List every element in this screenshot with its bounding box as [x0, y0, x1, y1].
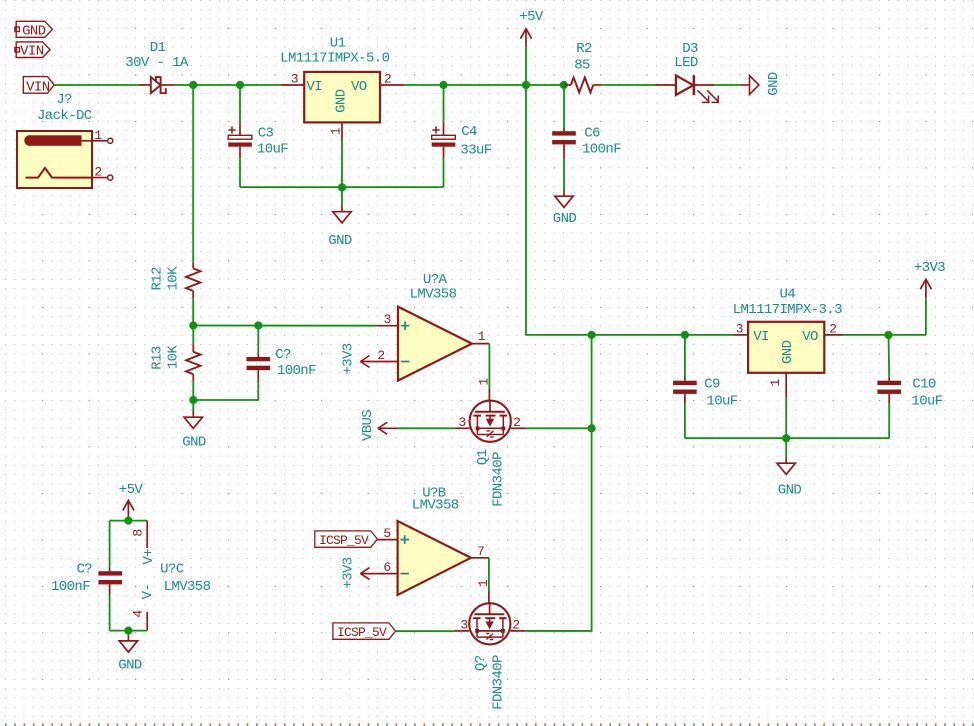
- svg-text:VO: VO: [351, 79, 367, 95]
- op-amp U?A: [398, 307, 472, 381]
- svg-text:100nF: 100nF: [582, 141, 621, 157]
- capacitor C4 wires: [443, 85, 445, 122]
- label VIN: [23, 77, 54, 94]
- wire +5V down: [526, 85, 733, 335]
- svg-text:8: 8: [131, 529, 146, 536]
- hierarchical label GND: [16, 21, 52, 37]
- capacitor C? U?C: [98, 571, 122, 575]
- U1 pin 1 lead: [341, 122, 343, 140]
- svg-text:Q1: Q1: [475, 449, 491, 465]
- svg-text:U?C: U?C: [160, 561, 184, 577]
- D3 light arrows: [698, 90, 710, 103]
- svg-text:6: 6: [383, 560, 390, 575]
- transistor Q?: [469, 603, 510, 644]
- svg-text:100nF: 100nF: [277, 363, 316, 379]
- svg-text:GND: GND: [22, 23, 46, 39]
- power +3V3: [925, 279, 927, 298]
- svg-text:LM1117IMPX-3.3: LM1117IMPX-3.3: [733, 302, 842, 318]
- svg-text:FDN340P: FDN340P: [491, 452, 507, 507]
- svg-text:LMV358: LMV358: [412, 498, 459, 514]
- svg-text:3: 3: [460, 618, 467, 633]
- junction C3 tap: [236, 81, 244, 89]
- junction C10 tap: [884, 331, 892, 339]
- capacitor C10: [877, 381, 901, 385]
- capacitor C9: [673, 381, 697, 385]
- svg-text:30V - 1A: 30V - 1A: [125, 55, 189, 71]
- svg-text:LMV358: LMV358: [164, 579, 211, 595]
- svg-text:10K: 10K: [166, 266, 182, 291]
- ground R13: [192, 400, 194, 412]
- svg-text:1: 1: [477, 377, 492, 385]
- svg-text:C4: C4: [461, 124, 477, 140]
- U?B pin 6 lead: [362, 573, 398, 575]
- diode D3 LED: [656, 84, 676, 86]
- svg-text:LMV358: LMV358: [410, 286, 457, 302]
- capacitor C9 wires: [684, 335, 686, 377]
- svg-text:4: 4: [131, 610, 146, 618]
- transistor Q1: [470, 401, 511, 442]
- svg-text:D1: D1: [150, 40, 166, 56]
- resistor R13: [192, 326, 194, 345]
- capacitor C?: [247, 357, 271, 361]
- svg-text:LM1117IMPX-5.0: LM1117IMPX-5.0: [280, 51, 389, 67]
- resistor R12: [192, 85, 194, 262]
- wire R2 to D3: [602, 84, 656, 86]
- power +5V U?C: [127, 500, 129, 519]
- wire C9-C10 gnd rail: [685, 437, 889, 439]
- U4 pin 3 lead: [733, 334, 748, 336]
- junction Q1 rail: [588, 424, 596, 432]
- junction C? tap: [254, 321, 262, 329]
- svg-text:VI: VI: [753, 329, 769, 345]
- svg-text:2: 2: [377, 348, 384, 363]
- regulator U1: [304, 72, 380, 123]
- svg-text:+5V: +5V: [519, 9, 544, 25]
- U?C pin 4 lead: [146, 612, 148, 631]
- junction mid rail top: [588, 331, 596, 339]
- svg-text:VIN: VIN: [26, 79, 50, 95]
- svg-text:10uF: 10uF: [706, 393, 737, 409]
- svg-text:C6: C6: [584, 125, 600, 141]
- sheet border ticks bottom: [5, 723, 974, 726]
- svg-text:1: 1: [329, 127, 344, 135]
- wire C3-C4 gnd rail: [240, 186, 444, 188]
- svg-text:10K: 10K: [166, 345, 182, 370]
- junction U4 gnd: [782, 434, 790, 442]
- svg-text:2: 2: [94, 165, 101, 180]
- svg-text:R2: R2: [576, 41, 592, 57]
- svg-text:J?: J?: [56, 92, 72, 108]
- svg-text:U4: U4: [779, 287, 795, 303]
- wire D3 to GND label: [715, 84, 740, 86]
- capacitor C3: [228, 135, 252, 139]
- U?C top wire: [110, 520, 148, 522]
- svg-text:C3: C3: [258, 126, 274, 142]
- svg-text:+3V3: +3V3: [341, 343, 357, 374]
- label GND right: [740, 84, 750, 86]
- Q? gate lead: [488, 592, 490, 604]
- svg-text:33uF: 33uF: [460, 142, 491, 158]
- junction R2: [560, 81, 568, 89]
- svg-text:10uF: 10uF: [257, 142, 288, 158]
- svg-text:2: 2: [512, 618, 519, 633]
- wire Q1 to rail: [526, 427, 592, 429]
- junction U1 gnd: [338, 183, 346, 191]
- diode D1: [138, 84, 151, 86]
- svg-text:GND: GND: [118, 658, 142, 674]
- svg-text:C10: C10: [912, 376, 936, 392]
- ground U4: [785, 438, 787, 457]
- junction C9 tap: [681, 331, 689, 339]
- capacitor C4: [432, 135, 456, 139]
- Q1 gate lead: [488, 389, 490, 401]
- svg-text:ICSP_5V: ICSP_5V: [319, 533, 369, 548]
- svg-text:VI: VI: [306, 79, 322, 95]
- svg-text:ICSP_5V: ICSP_5V: [337, 625, 387, 640]
- label +3V3 on U?A pin2: [360, 356, 369, 368]
- label +3V3 on U?B pin6: [360, 568, 369, 580]
- ground U?C: [127, 631, 129, 636]
- capacitor C6 wires: [563, 85, 565, 128]
- svg-text:R12: R12: [150, 267, 166, 291]
- svg-text:Jack-DC: Jack-DC: [37, 108, 92, 124]
- svg-text:1: 1: [768, 378, 783, 386]
- svg-text:GND: GND: [766, 72, 782, 96]
- U1 pin 2 lead: [380, 84, 404, 86]
- junction U?C top: [124, 517, 132, 525]
- svg-text:7: 7: [477, 544, 484, 559]
- U?A pin 1 lead: [472, 343, 490, 345]
- U?A pin 2 lead: [362, 361, 398, 363]
- svg-text:R13: R13: [150, 346, 166, 370]
- svg-text:GND: GND: [778, 483, 802, 499]
- wire VBUS to Q1: [398, 427, 455, 429]
- capacitor C? wires: [257, 326, 259, 354]
- U4 pin 2 lead: [824, 334, 843, 336]
- svg-text:U1: U1: [330, 36, 346, 52]
- capacitor C6: [552, 131, 576, 135]
- wire ICSP to Q?: [396, 630, 455, 632]
- svg-text:3: 3: [458, 415, 465, 430]
- svg-text:C9: C9: [704, 376, 720, 392]
- wire mid rail: [526, 335, 592, 631]
- wire divider to opamp: [193, 325, 377, 327]
- U?B pin 5 lead: [377, 539, 397, 541]
- svg-text:1: 1: [478, 329, 486, 344]
- wire U1 output rail: [404, 84, 564, 86]
- junction +5V: [522, 81, 530, 89]
- svg-text:GND: GND: [182, 434, 206, 450]
- svg-text:3: 3: [384, 312, 391, 327]
- svg-text:GND: GND: [328, 233, 352, 249]
- junction divider: [189, 321, 197, 329]
- junction D1/R12: [189, 81, 197, 89]
- svg-text:VIN: VIN: [20, 44, 44, 60]
- svg-text:+3V3: +3V3: [341, 557, 357, 588]
- U?A pin 3 lead: [378, 325, 399, 327]
- U4 pin 1 lead: [785, 373, 787, 398]
- svg-text:GND: GND: [780, 340, 796, 364]
- svg-text:+5V: +5V: [119, 482, 144, 498]
- U?B pin 7 lead: [471, 557, 489, 559]
- resistor R2: [564, 84, 571, 86]
- wire U?A out down: [488, 344, 490, 389]
- svg-text:C?: C?: [76, 561, 92, 577]
- label ICSP_5V pin5: [315, 531, 378, 547]
- svg-text:2: 2: [513, 415, 520, 430]
- ground U1: [341, 187, 343, 206]
- U?C bottom wire: [110, 630, 148, 632]
- svg-text:GND: GND: [553, 211, 577, 227]
- U1 pin 3 lead: [281, 84, 304, 86]
- op-amp U?B: [398, 521, 471, 595]
- svg-text:5: 5: [383, 526, 390, 541]
- svg-text:GND: GND: [334, 89, 350, 113]
- svg-text:V-: V-: [140, 584, 156, 600]
- svg-text:3: 3: [291, 72, 298, 87]
- svg-text:VBUS: VBUS: [360, 410, 376, 441]
- svg-text:+3V3: +3V3: [914, 260, 945, 276]
- capacitor C3 wires: [239, 85, 241, 122]
- label VBUS: [378, 422, 387, 434]
- capacitor C? U?C wires: [109, 521, 111, 568]
- hierarchical label VIN: [16, 42, 50, 58]
- capacitor C10 wires: [888, 335, 891, 377]
- wire U4 out: [843, 334, 926, 336]
- junction U?C bottom: [124, 627, 132, 635]
- svg-text:VO: VO: [802, 329, 818, 345]
- junction R13 gnd: [189, 396, 197, 404]
- wire U?B out down: [488, 558, 490, 592]
- wire Q? to rail: [525, 630, 591, 632]
- U?C pin 8 lead: [146, 521, 148, 549]
- svg-text:85: 85: [574, 58, 590, 74]
- svg-text:FDN340P: FDN340P: [491, 655, 507, 710]
- ground C6: [563, 191, 565, 197]
- connector J? Jack-DC: [17, 131, 92, 188]
- svg-text:C?: C?: [275, 347, 291, 363]
- wire D1 to U1: [175, 84, 281, 86]
- svg-text:1: 1: [476, 579, 491, 587]
- svg-text:V+: V+: [141, 549, 157, 565]
- wire VIN to D1: [54, 84, 138, 86]
- svg-text:3: 3: [736, 322, 743, 337]
- regulator U4: [748, 322, 824, 373]
- junction C4 tap: [439, 81, 447, 89]
- power +5V: [525, 29, 527, 48]
- svg-text:10uF: 10uF: [911, 393, 942, 409]
- svg-text:1: 1: [94, 128, 102, 143]
- label ICSP_5V pin3: [333, 623, 396, 639]
- svg-text:LED: LED: [674, 55, 698, 71]
- svg-text:Q?: Q?: [473, 655, 489, 671]
- svg-text:100nF: 100nF: [51, 579, 90, 595]
